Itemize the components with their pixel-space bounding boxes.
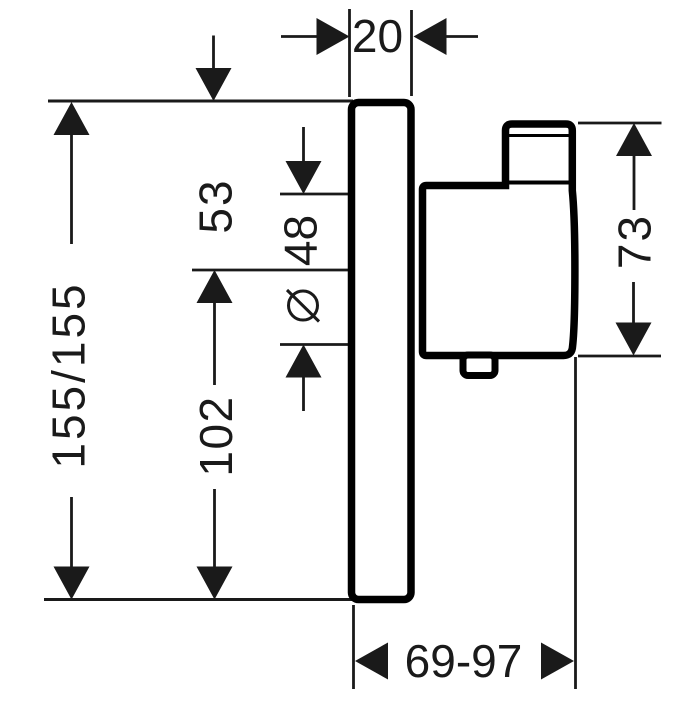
dim 20: left extension line — [348, 9, 351, 97]
tick line (top of O48 span, y=194) — [280, 193, 353, 196]
svg-text:73: 73 — [609, 214, 661, 269]
dim 20: right extension line — [410, 10, 413, 96]
body top edge continuation (thin, behind handle) — [508, 181, 570, 185]
dim 53: down arrow (tip at y=101) — [196, 68, 232, 101]
dim O48: down arrow (tip at y=194) — [286, 161, 322, 194]
svg-text:53: 53 — [190, 178, 242, 233]
dim 73: up arrow (tip at y=122) — [616, 123, 652, 156]
dim O48: diameter symbol circle — [289, 291, 318, 320]
svg-text:155/155: 155/155 — [43, 281, 95, 468]
dim 73: down arrow (tip at y=355.5) — [616, 323, 652, 356]
dim 73: bottom extension line — [578, 355, 661, 358]
dim 155/155: lower line segment — [70, 497, 73, 568]
dim 69-97: right arrow (points right, tip at x=574) — [541, 643, 574, 680]
dim 155/155: upper line segment — [70, 133, 73, 244]
dim 155/155: down arrow — [54, 567, 90, 600]
mid tick line (53/102 boundary, y=270) — [192, 269, 353, 272]
svg-text:48: 48 — [275, 215, 327, 266]
dim 155/155: up arrow — [54, 102, 90, 135]
dim O48: diameter symbol slash — [287, 290, 319, 322]
svg-text:69-97: 69-97 — [405, 635, 523, 687]
dim 69-97: left arrow (points left, tip at x=355) — [355, 643, 388, 680]
tick line (bottom of O48 span, y=344.5) — [280, 343, 353, 346]
bottom reference line (y=599.5) — [44, 598, 353, 601]
dim O48: lower stub line — [302, 377, 305, 412]
handle inner line — [506, 134, 573, 137]
wall plate (side view) — [352, 103, 412, 600]
dim 69-97: right extension line — [574, 357, 577, 689]
dim 102: down arrow (tip at y=599.5) — [197, 567, 233, 600]
bottom outlet notch — [463, 355, 495, 376]
dim 20: right tail line — [445, 35, 478, 38]
dim 102: lower line segment — [213, 489, 216, 568]
dim 73: lower line segment — [632, 282, 635, 324]
dim 20: right arrow (points left, tip at x=413.5) — [414, 18, 447, 55]
top reference line (wall face, y=101) — [48, 100, 353, 103]
dim O48: upper stub line — [302, 127, 305, 162]
svg-text:102: 102 — [190, 395, 242, 476]
dim 69-97: left extension line — [352, 605, 355, 689]
dim O48: up arrow (tip at y=344.5) — [286, 345, 322, 378]
valve body with stop handle (outline) — [423, 124, 575, 356]
dim 53: upper stub line — [212, 36, 215, 70]
dim 20: left tail line — [281, 35, 318, 38]
dim 102: upper line segment — [213, 302, 216, 385]
svg-text:20: 20 — [352, 10, 403, 62]
dim 102: up arrow (tip at y=270) — [197, 270, 233, 303]
dim 20: left arrow (points right, tip at x=349.5) — [317, 18, 350, 55]
dim 73: top extension line — [578, 122, 662, 125]
dim 73: upper line segment — [633, 155, 636, 210]
